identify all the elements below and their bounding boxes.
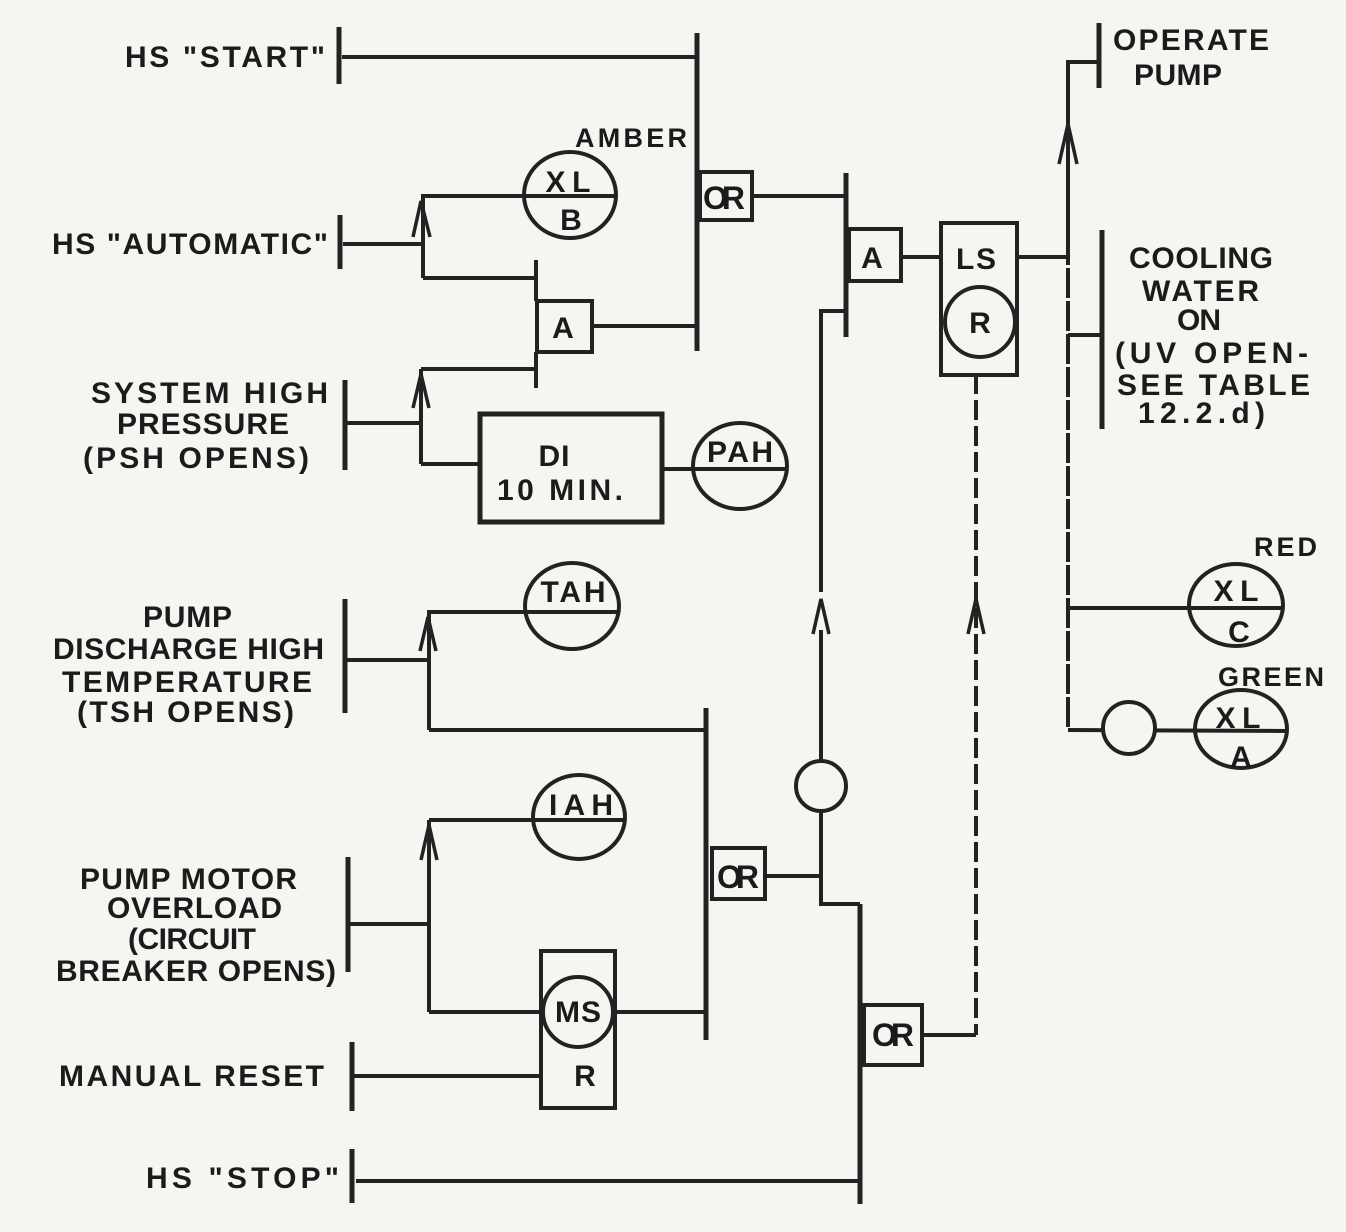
wire bus2 vertical (844, 173, 849, 337)
wire A1 output (592, 324, 697, 328)
arrow LS reset vertical (968, 599, 984, 634)
node HS AUTOMATIC input tick (338, 215, 343, 269)
gate OR4 box (864, 1005, 922, 1065)
alarm circle IAH (533, 775, 625, 859)
svg-text:R: R (574, 1060, 596, 1093)
arrow HS AUTOMATIC branch (413, 201, 430, 237)
svg-text:(TSH OPENS): (TSH OPENS) (77, 696, 294, 729)
gate OR3 box (712, 848, 765, 899)
junction circle on interlock line (796, 761, 846, 811)
lamp circle XL/B (524, 152, 616, 238)
svg-text:OPERATE: OPERATE (1113, 24, 1269, 57)
wire OR3 output (765, 874, 821, 878)
wire DI output (662, 467, 694, 471)
wire OR4 output (922, 1033, 976, 1037)
node PSH input tick (343, 380, 348, 470)
wire jog horizontal y904 (821, 902, 860, 906)
svg-text:LS: LS (956, 243, 996, 276)
svg-text:R: R (969, 307, 991, 340)
wire to lamp XL/C with divider (1068, 606, 1283, 610)
wire interlock elbow from bus2 (821, 311, 846, 592)
wire to alarm TAH with divider (427, 610, 619, 614)
gate A1 box (537, 301, 592, 352)
svg-text:A: A (861, 242, 883, 275)
memory LS box (941, 223, 1017, 375)
wire HS STOP horizontal (356, 1179, 860, 1183)
wire OR1 output (752, 194, 846, 198)
circle MS in box (543, 977, 613, 1047)
wire vertical x536 to A1 (534, 260, 538, 301)
wire MS output (615, 1010, 706, 1014)
wire below junction circle (819, 811, 823, 876)
wire interlock vertical upper part (819, 630, 823, 761)
svg-text:B: B (560, 204, 582, 237)
wire DI input (421, 462, 480, 466)
svg-text:OR: OR (717, 859, 759, 895)
svg-text:A: A (552, 312, 574, 345)
svg-text:TAH: TAH (541, 576, 606, 609)
svg-text:DISCHARGE HIGH: DISCHARGE HIGH (53, 633, 324, 666)
wire green branch horizontal (1068, 730, 1286, 731)
arrow main output (1059, 124, 1077, 164)
node HS STOP input tick (350, 1149, 355, 1203)
svg-text:HS "START": HS "START" (125, 41, 325, 74)
alarm circle TAH (525, 563, 619, 649)
svg-text:HS "AUTOMATIC": HS "AUTOMATIC" (52, 228, 328, 261)
wire horizontal y278 (423, 276, 536, 280)
wire cooling water connector (1068, 333, 1102, 337)
svg-text:PUMP: PUMP (1134, 59, 1222, 92)
wire main output vertical (1066, 62, 1070, 235)
svg-text:BREAKER OPENS): BREAKER OPENS) (56, 955, 336, 988)
svg-text:GREEN: GREEN (1218, 662, 1324, 692)
svg-text:AMBER: AMBER (575, 123, 687, 153)
wire vertical branch x423 (421, 196, 425, 278)
wire vertical branch x429 lower (427, 820, 431, 1012)
wire A1 bottom stub (534, 352, 538, 388)
wire HS START horizontal (342, 55, 697, 59)
wire bus3 vertical (704, 708, 709, 1040)
svg-text:HS "STOP": HS "STOP" (146, 1162, 339, 1195)
svg-text:PRESSURE: PRESSURE (117, 408, 289, 441)
wire horizontal y369 (421, 367, 536, 371)
wire OVERLOAD horizontal (350, 922, 429, 926)
wire PSH horizontal (346, 421, 421, 425)
wire MANUAL RESET horizontal (354, 1074, 541, 1078)
wire TSH horizontal (346, 658, 429, 662)
node TSH input tick (343, 599, 348, 713)
delay DI box (480, 414, 662, 522)
svg-text:MS: MS (555, 996, 601, 1029)
svg-text:(UV OPEN-: (UV OPEN- (1115, 337, 1308, 370)
wire MS input (429, 1010, 541, 1014)
node cooling water bracket tick (1100, 230, 1105, 429)
svg-text:MANUAL RESET: MANUAL RESET (59, 1060, 324, 1093)
svg-text:OR: OR (703, 180, 745, 216)
arrow OVERLOAD branch (421, 825, 437, 860)
svg-text:(PSH OPENS): (PSH OPENS) (83, 442, 309, 475)
svg-text:(CIRCUIT: (CIRCUIT (128, 923, 256, 956)
svg-text:XL: XL (1214, 575, 1259, 608)
arrow interlock vertical (813, 599, 829, 634)
wire vertical branch x429 upper (427, 612, 431, 730)
svg-text:OVERLOAD: OVERLOAD (107, 892, 282, 925)
wire vertical x858 down to stop line (858, 904, 863, 1204)
wire TSH bottom horizontal (429, 728, 706, 732)
gate A2 box (849, 229, 901, 281)
wire A2 output (901, 255, 941, 259)
svg-text:ON: ON (1177, 304, 1221, 337)
wire bus1 vertical (695, 33, 700, 351)
svg-text:PAH: PAH (707, 436, 773, 469)
wire LS output (1017, 255, 1069, 259)
node OPERATE PUMP tick (1097, 23, 1102, 88)
svg-text:COOLING: COOLING (1129, 242, 1273, 275)
wire LS reset vertical (974, 374, 978, 1035)
junction circle green branch (1103, 702, 1155, 754)
node HS START input tick (337, 27, 342, 84)
node MANUAL RESET input tick (350, 1042, 355, 1111)
svg-text:10 MIN.: 10 MIN. (497, 474, 623, 507)
gate OR1 box (700, 172, 752, 220)
reset circle R in LS (945, 287, 1015, 357)
svg-text:OR: OR (872, 1017, 914, 1053)
wire OPERATE PUMP elbow (1068, 62, 1099, 129)
memory MS box (541, 951, 615, 1108)
lamp circle XL/C (1189, 564, 1283, 646)
node OVERLOAD input tick (346, 857, 351, 972)
wire vertical x822 below OR3 junction (819, 876, 823, 906)
arrow PSH branch (413, 374, 429, 408)
svg-text:PUMP: PUMP (143, 601, 232, 634)
wire vertical branch x421 (419, 369, 423, 464)
svg-text:RED: RED (1254, 532, 1317, 562)
svg-text:DI: DI (539, 440, 570, 473)
svg-text:C: C (1228, 616, 1250, 649)
wire to alarm IAH with divider (429, 818, 625, 822)
lamp circle XL/A (1195, 690, 1287, 768)
wire HS AUTOMATIC horizontal (343, 242, 423, 246)
svg-text:SYSTEM HIGH: SYSTEM HIGH (91, 377, 328, 410)
arrow TSH branch (420, 617, 436, 651)
svg-text:IAH: IAH (549, 789, 613, 822)
wire to lamp XL/B with divider (421, 194, 617, 198)
alarm circle PAH with divider (693, 423, 787, 509)
svg-text:TEMPERATURE: TEMPERATURE (62, 666, 312, 699)
svg-text:A: A (1230, 741, 1252, 774)
